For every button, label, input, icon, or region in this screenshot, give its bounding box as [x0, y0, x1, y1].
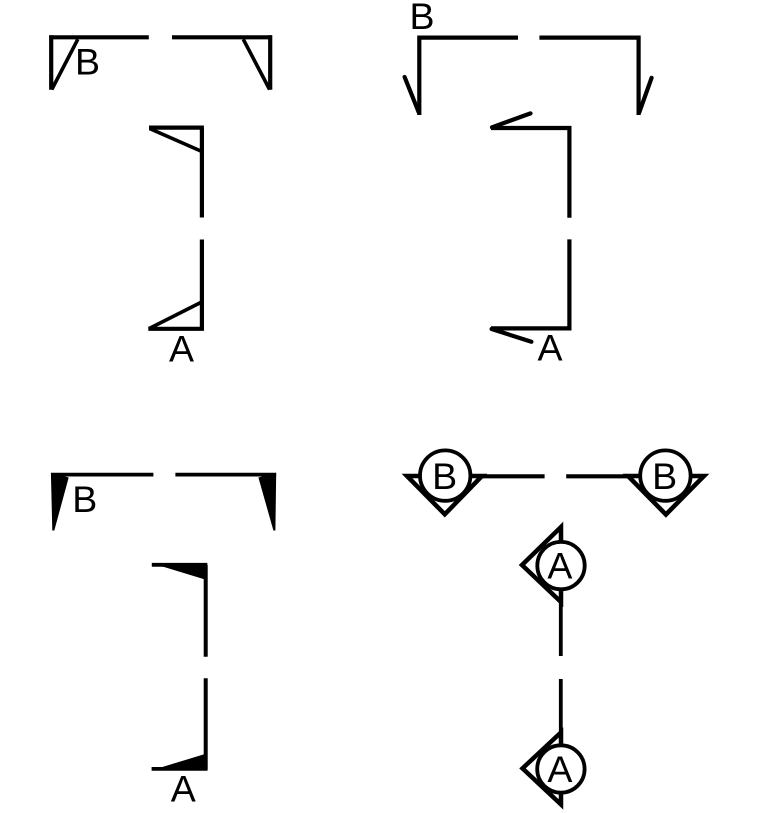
- style1 section line B-B horizontal left segment: [49, 35, 149, 39]
- style4 viewing triangle A top: [522, 527, 561, 602]
- style4 viewing triangle B left: [407, 476, 482, 514]
- style3 section line B-B horizontal right segment: [175, 473, 276, 477]
- style1 section line A-A top horizontal: [149, 125, 204, 129]
- style2 section line B-B left corner: [419, 38, 518, 115]
- style1 open arrow A top diagonal: [150, 129, 202, 152]
- style4 viewing triangle A bottom: [523, 732, 562, 804]
- style1 open arrow B left vertical: [49, 35, 53, 90]
- style2 half-arrowhead A top tick: [492, 113, 531, 127]
- style4 circle A bottom: [537, 745, 584, 792]
- svg-text:A: A: [547, 748, 572, 790]
- style4 section line B-B right segment: [566, 474, 628, 478]
- style3 filled arrow B right: [258, 473, 276, 531]
- style2 section line B-B right corner: [539, 38, 638, 115]
- svg-text:A: A: [547, 544, 572, 586]
- style3 section line A-A bottom vertical segment: [204, 678, 208, 770]
- style1 section line B-B horizontal right segment: [172, 35, 272, 39]
- style3 filled arrow B left: [51, 473, 69, 531]
- svg-text:B: B: [409, 0, 434, 37]
- svg-text:B: B: [432, 455, 457, 497]
- style3 section line A-A bottom horizontal: [152, 767, 208, 771]
- style1 section line A-A bottom horizontal: [148, 327, 204, 331]
- style2 section line A-A bottom corner: [491, 239, 569, 328]
- style4 circle B left: [420, 450, 470, 500]
- style4 section line A-A bottom vertical segment: [559, 679, 563, 732]
- svg-text:B: B: [652, 455, 677, 497]
- style4 section line A-A top vertical segment: [559, 601, 563, 656]
- svg-text:A: A: [171, 768, 196, 810]
- style3 filled arrow A top: [152, 563, 206, 580]
- style2 section line A-A top corner: [491, 128, 569, 218]
- style3 section line B-B horizontal left segment: [51, 473, 153, 477]
- style4 section line B-B left segment: [482, 474, 545, 478]
- style4 circle B right: [640, 450, 690, 500]
- style3 section line A-A top vertical segment: [204, 565, 208, 657]
- svg-text:B: B: [72, 478, 97, 520]
- style2 half-arrowhead A bottom tick: [492, 329, 532, 342]
- svg-text:A: A: [169, 327, 194, 369]
- svg-text:B: B: [75, 41, 100, 83]
- style1 open arrow B right vertical: [268, 35, 272, 90]
- style4 circle A top: [537, 542, 584, 589]
- style4 viewing triangle B right: [628, 476, 704, 515]
- style1 open arrow A bottom diagonal: [149, 302, 202, 329]
- style2 half-arrowhead B left tick: [405, 77, 419, 113]
- svg-text:A: A: [537, 327, 562, 369]
- style3 section line A-A top horizontal: [152, 563, 208, 567]
- style2 half-arrowhead B right tick: [639, 78, 651, 113]
- style1 section line A-A bottom vertical segment: [200, 240, 204, 331]
- style1 open arrow B left diagonal: [52, 39, 78, 89]
- style1 open arrow B right diagonal: [243, 39, 269, 89]
- style1 section line A-A top vertical segment: [200, 128, 204, 218]
- style3 filled arrow A bottom: [152, 754, 206, 770]
